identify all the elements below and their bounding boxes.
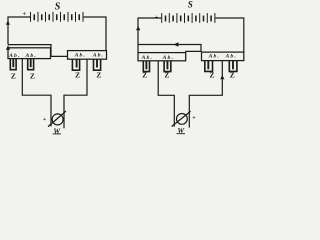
svg-text:Ab.: Ab. — [162, 55, 174, 61]
svg-text:Z: Z — [142, 71, 147, 80]
svg-text:Z: Z — [164, 71, 169, 80]
svg-text:Z: Z — [11, 71, 16, 80]
svg-text:Z: Z — [75, 71, 80, 80]
svg-text:Ab.: Ab. — [74, 53, 86, 59]
svg-text:S: S — [55, 1, 61, 12]
svg-text:S: S — [188, 0, 193, 9]
svg-text:Z: Z — [30, 71, 35, 80]
svg-text:+: + — [192, 116, 196, 122]
svg-text:Z: Z — [96, 71, 101, 80]
svg-text:+: + — [22, 10, 26, 17]
svg-text:Z: Z — [210, 70, 215, 79]
svg-text:Ab.: Ab. — [225, 53, 237, 59]
svg-text:Ab.: Ab. — [141, 55, 153, 61]
svg-text:+: + — [43, 117, 47, 123]
svg-text:Ab.: Ab. — [8, 53, 20, 59]
svg-text:Ab.: Ab. — [208, 53, 220, 59]
svg-text:Ab.: Ab. — [92, 53, 104, 59]
svg-text:+: + — [154, 14, 158, 21]
svg-text:Z: Z — [230, 70, 235, 79]
svg-text:Ab.: Ab. — [25, 53, 37, 59]
